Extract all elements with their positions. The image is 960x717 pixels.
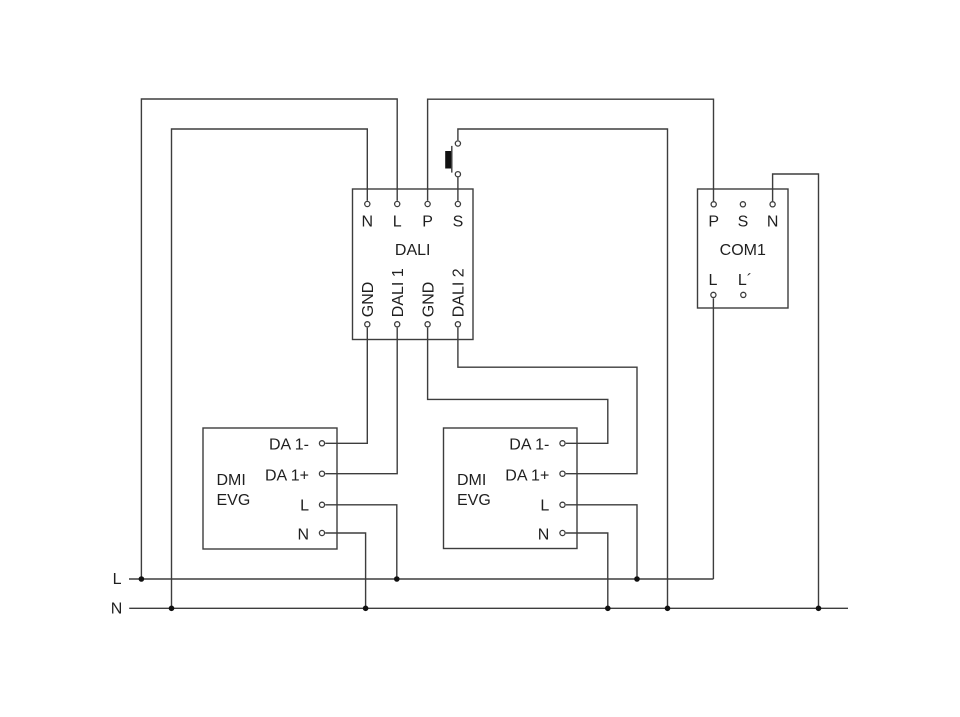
wire S: DALI terminal S up to push-button lower contact [457,178,459,201]
svg-text:L: L [300,498,309,515]
wire P: DALI terminal P up, right, down to COM1 terminal P [428,99,714,201]
DALI pin DALI 2 [455,322,460,327]
svg-text:EVG: EVG [457,492,491,509]
COM1 pin S [740,202,745,207]
EVG1 pin DA 1+ [319,471,324,476]
junction: EVG2 N on N rail [605,606,611,612]
DALI pin label N [362,213,374,230]
DALI pin N [365,201,370,206]
COM1 pin label S [738,213,749,230]
junction: N wire on N rail [169,606,175,612]
wire: COM1 terminal L down to L rail right end [712,298,714,579]
EVG2 pin DA 1- [560,441,565,446]
COM1 pin label L [709,272,718,289]
svg-text:DA 1-: DA 1- [269,436,309,453]
COM1 pin L2 [741,292,746,297]
svg-text:GND: GND [420,282,437,318]
wire: EVG1 terminal L right and down to L rail [325,505,397,579]
svg-text:DALI: DALI [395,242,431,259]
wire: push-button upper contact up, right, down to N rail [458,129,668,608]
EVG1 pin N [319,530,324,535]
DALI pin label GND right (rotated) [420,282,437,318]
EVG2 pin label L [540,498,549,515]
net L rail [129,578,713,580]
EVG2 pin label DA 1- [509,436,549,453]
COM1 pin label P [708,213,719,230]
COM1 pin N [770,202,775,207]
EVG2 pin label DA 1+ [505,468,549,485]
DALI pin label DALI 2 (rotated) [451,268,468,317]
device COM1 box [698,189,789,308]
EVG1 pin label N [297,526,309,543]
device DALI gateway box [353,189,474,340]
EVG2 device label line 1 [457,472,486,489]
EVG1 pin DA 1- [319,441,324,446]
EVG1 pin label L [300,498,309,515]
svg-text:DMI: DMI [217,472,246,489]
wire N: DALI terminal N up, left, down to N rail [172,129,368,608]
svg-text:N: N [767,213,779,230]
device EVG1 (left DMI EVG) box [203,428,337,549]
svg-text:DALI 1: DALI 1 [390,268,407,317]
COM1 pin L [711,292,716,297]
EVG2 pin L [560,502,565,507]
wire: EVG2 terminal L right and down to L rail [566,505,637,579]
junction: EVG1 N on N rail [363,606,369,612]
svg-text:L: L [709,272,718,289]
svg-text:DA 1+: DA 1+ [505,468,549,485]
svg-text:P: P [708,213,719,230]
svg-text:N: N [111,601,123,618]
svg-text:L: L [393,213,402,230]
svg-text:L: L [540,498,549,515]
wire: EVG2 terminal N right and down to N rail [566,533,608,608]
DALI pin S [455,201,460,206]
EVG2 pin label N [538,526,550,543]
svg-text:DA 1-: DA 1- [509,436,549,453]
push-button S1 upper contact [455,141,460,146]
net label N [111,601,123,618]
junction: push-button wire on N rail [665,606,671,612]
wire: DALI terminal DALI 2 down, right, down, left to EVG2 terminal DA 1+ [458,328,637,474]
COM1 device label [720,242,766,259]
svg-text:GND: GND [360,282,377,318]
svg-text:DMI: DMI [457,472,486,489]
svg-text:N: N [538,526,550,543]
DALI pin label GND left (rotated) [360,282,377,318]
push-button S1 lower contact [455,172,460,177]
DALI pin DALI 1 [395,322,400,327]
DALI pin label L [393,213,402,230]
push-button S1 button (black rectangle) [445,151,451,169]
DALI pin GND right [425,322,430,327]
svg-text:DA 1+: DA 1+ [265,468,309,485]
EVG2 pin N [560,530,565,535]
svg-text:L´: L´ [738,272,752,289]
junction: L wire on L rail [139,576,145,582]
device EVG2 (right DMI EVG) box [444,428,578,549]
EVG1 pin label DA 1- [269,436,309,453]
COM1 pin label N [767,213,779,230]
svg-text:P: P [422,213,433,230]
net N rail [129,607,848,609]
COM1 pin P [711,202,716,207]
svg-text:S: S [453,213,464,230]
wire L: DALI terminal L up, left, down to L rail [141,99,397,579]
EVG1 pin L [319,502,324,507]
EVG2 pin DA 1+ [560,471,565,476]
net label L [113,571,122,588]
wire: DALI terminal DALI 1 down and left to EVG1 terminal DA 1+ [325,328,397,474]
DALI pin label P [422,213,433,230]
junction: COM1 N wire on N rail [816,606,822,612]
DALI pin GND left [365,322,370,327]
junction: EVG1 L on L rail [394,576,400,582]
EVG1 device label line 2 [217,492,251,509]
svg-text:S: S [738,213,749,230]
wire: COM1 terminal N up, right, down to N rail [773,174,819,608]
wire: DALI terminal GND (left) down and left to EVG1 terminal DA 1- [325,328,367,444]
svg-text:EVG: EVG [217,492,251,509]
DALI pin L [395,201,400,206]
DALI pin label DALI 1 (rotated) [390,268,407,317]
EVG2 device label line 2 [457,492,491,509]
svg-text:DALI 2: DALI 2 [451,268,468,317]
junction: EVG2 L on L rail [634,576,640,582]
svg-text:N: N [362,213,374,230]
EVG1 pin label DA 1+ [265,468,309,485]
wire: EVG1 terminal N right and down to N rail [325,533,365,608]
svg-text:L: L [113,571,122,588]
DALI pin label S [453,213,464,230]
svg-text:COM1: COM1 [720,242,766,259]
DALI device label [395,242,431,259]
svg-text:N: N [297,526,309,543]
EVG1 device label line 1 [217,472,246,489]
DALI pin P [425,201,430,206]
wire: DALI terminal GND (right) down, right, down, left to EVG2 terminal DA 1- [428,328,608,444]
push-button S1 actuator bar [451,146,453,173]
COM1 pin label L2 [738,272,752,289]
